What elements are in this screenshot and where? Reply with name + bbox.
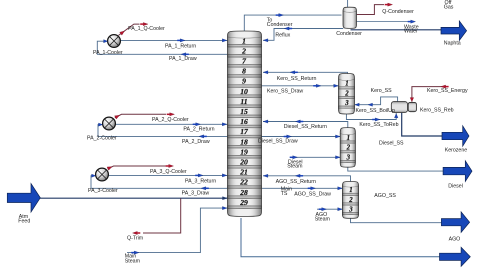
svg-text:2: 2 xyxy=(346,145,351,152)
svg-text:Diesel_SS_Return: Diesel_SS_Return xyxy=(284,124,327,130)
svg-text:PA_3-Cooler: PA_3-Cooler xyxy=(88,188,118,194)
svg-text:TS: TS xyxy=(281,191,288,197)
svg-text:PA_2_Draw: PA_2_Draw xyxy=(182,139,210,145)
svg-text:AGO: AGO xyxy=(449,237,461,243)
svg-text:Reflux: Reflux xyxy=(275,32,290,38)
svg-text:Kero_SS_BoilUp: Kero_SS_BoilUp xyxy=(356,108,395,114)
svg-text:Steam: Steam xyxy=(287,164,303,170)
svg-text:9: 9 xyxy=(242,77,246,86)
svg-text:29: 29 xyxy=(239,198,248,207)
svg-text:Kero_SS: Kero_SS xyxy=(371,88,393,94)
svg-text:Steam: Steam xyxy=(315,216,331,222)
svg-text:Gas: Gas xyxy=(444,5,454,11)
svg-text:3: 3 xyxy=(346,154,351,161)
svg-text:Kero_SS_Reb: Kero_SS_Reb xyxy=(420,107,454,113)
svg-text:1: 1 xyxy=(345,81,348,88)
svg-text:PA_2_Q-Cooler: PA_2_Q-Cooler xyxy=(152,117,189,123)
svg-text:21: 21 xyxy=(239,168,248,177)
svg-text:Naphta: Naphta xyxy=(444,41,461,47)
svg-text:Kero_SS_Draw: Kero_SS_Draw xyxy=(267,88,303,94)
svg-text:11: 11 xyxy=(240,97,247,106)
svg-text:Diesel_SS_Draw: Diesel_SS_Draw xyxy=(258,139,298,145)
svg-text:Condenser: Condenser xyxy=(267,22,293,28)
svg-text:28: 28 xyxy=(239,188,248,197)
svg-text:17: 17 xyxy=(240,127,249,136)
svg-text:Water: Water xyxy=(404,29,418,35)
svg-text:1: 1 xyxy=(349,187,352,194)
svg-text:8: 8 xyxy=(242,67,246,76)
svg-text:Kero_SS_Energy: Kero_SS_Energy xyxy=(427,88,468,94)
svg-text:Condenser: Condenser xyxy=(336,31,362,37)
svg-text:AGO_SS: AGO_SS xyxy=(374,193,396,199)
svg-text:PA_3_Return: PA_3_Return xyxy=(185,178,216,184)
svg-text:10: 10 xyxy=(240,87,248,96)
svg-text:1: 1 xyxy=(347,135,350,142)
svg-text:Diesel: Diesel xyxy=(448,183,463,189)
svg-text:19: 19 xyxy=(240,147,248,156)
svg-text:20: 20 xyxy=(239,158,248,167)
svg-text:Kero_SS_Return: Kero_SS_Return xyxy=(277,76,317,82)
svg-text:Feed: Feed xyxy=(18,219,30,225)
svg-text:PA_3_Draw: PA_3_Draw xyxy=(182,191,210,197)
svg-text:PA_2-Cooler: PA_2-Cooler xyxy=(87,135,117,141)
svg-text:Kero_SS_ToReb: Kero_SS_ToReb xyxy=(359,122,398,128)
svg-text:15: 15 xyxy=(240,107,248,116)
svg-text:2: 2 xyxy=(344,90,349,97)
svg-text:PA_1_Return: PA_1_Return xyxy=(165,44,196,50)
svg-text:16: 16 xyxy=(240,117,248,126)
svg-text:22: 22 xyxy=(239,178,248,187)
svg-text:3: 3 xyxy=(348,206,353,213)
svg-text:AGO_SS_Draw: AGO_SS_Draw xyxy=(294,191,331,197)
svg-text:3: 3 xyxy=(344,100,349,107)
svg-text:Steam: Steam xyxy=(125,259,141,265)
svg-text:PA_1_Q-Cooler: PA_1_Q-Cooler xyxy=(128,26,165,32)
svg-text:PA_1_Draw: PA_1_Draw xyxy=(169,56,197,62)
svg-text:Kerozene: Kerozene xyxy=(445,148,468,154)
svg-text:PA_1-Cooler: PA_1-Cooler xyxy=(93,50,123,56)
svg-text:Diesel_SS: Diesel_SS xyxy=(379,141,404,147)
svg-text:2: 2 xyxy=(348,197,353,204)
svg-text:PA_3_Q-Cooler: PA_3_Q-Cooler xyxy=(150,169,187,175)
svg-text:Q-Trim: Q-Trim xyxy=(127,236,144,242)
svg-text:2: 2 xyxy=(241,46,246,55)
svg-text:AGO_SS_Return: AGO_SS_Return xyxy=(276,179,316,185)
svg-text:1: 1 xyxy=(242,36,246,45)
svg-text:18: 18 xyxy=(240,137,248,146)
svg-text:PA_2_Return: PA_2_Return xyxy=(183,127,214,133)
svg-text:Q-Condenser: Q-Condenser xyxy=(382,9,414,15)
